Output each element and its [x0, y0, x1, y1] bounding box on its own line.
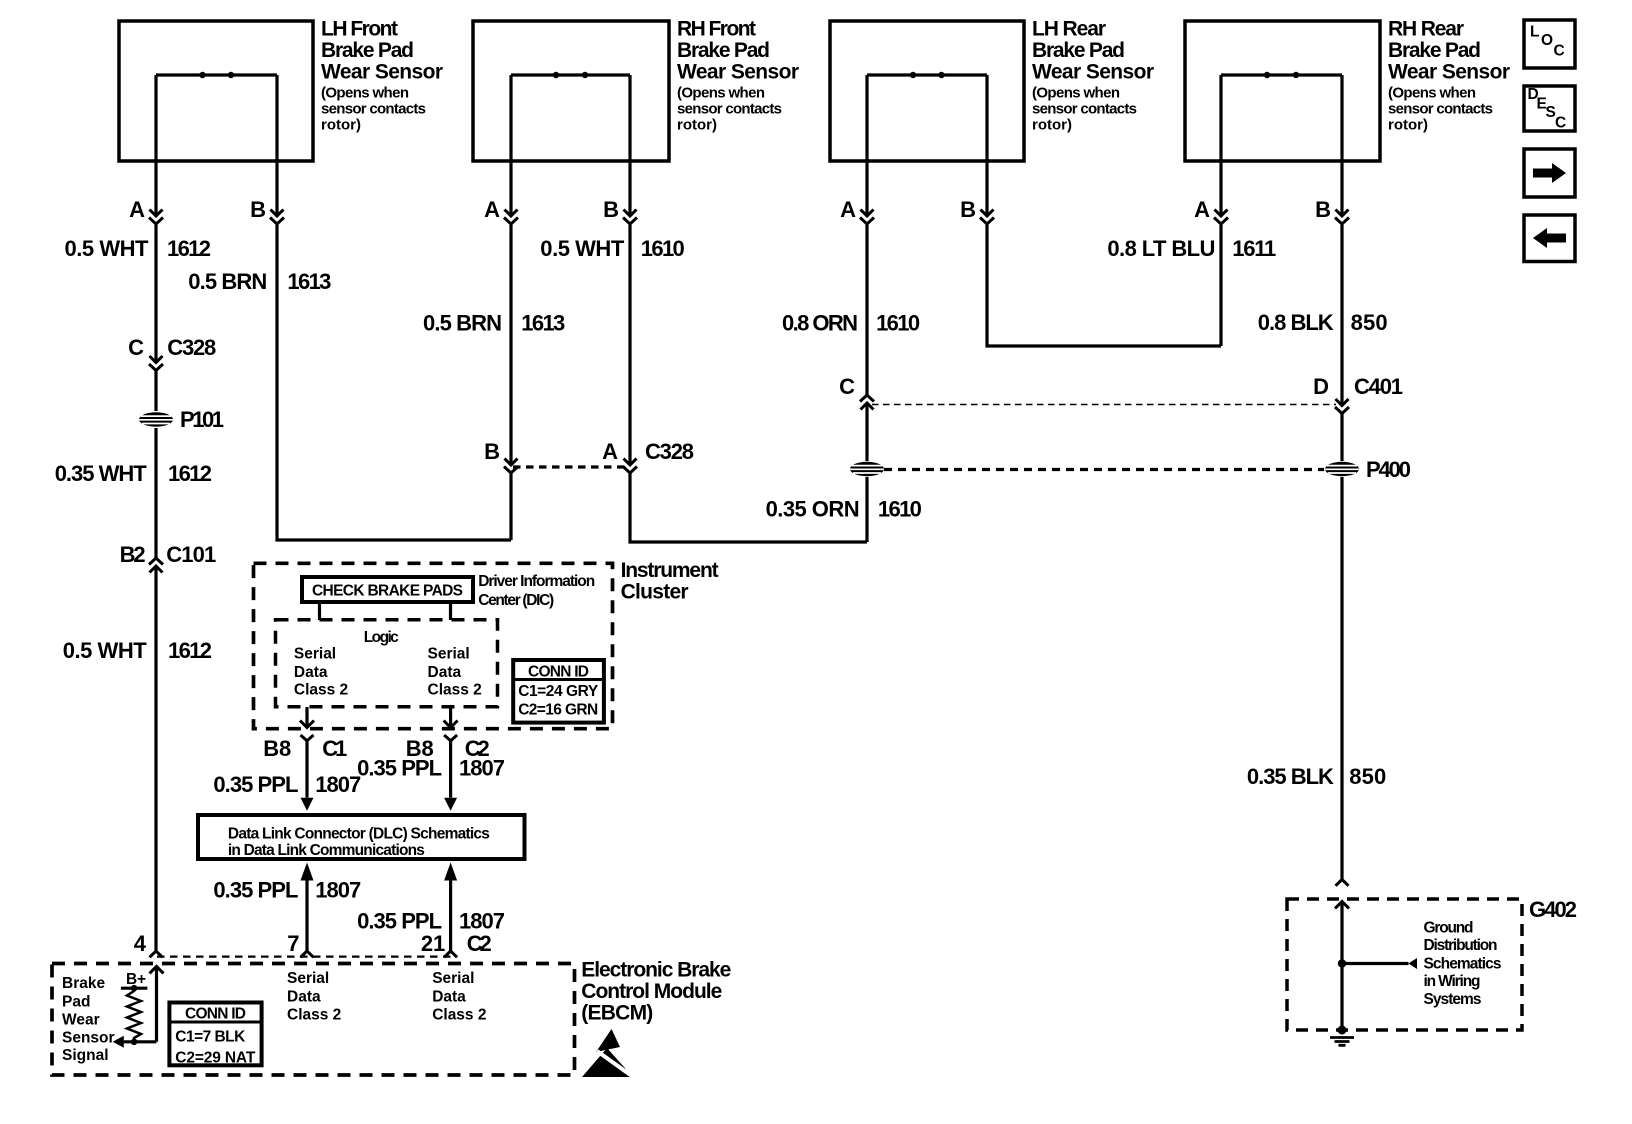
pin fork 7: [301, 951, 314, 957]
svg-text:1807: 1807: [315, 878, 361, 903]
svg-text:rotor): rotor): [1032, 117, 1072, 134]
svg-text:1807: 1807: [459, 756, 505, 781]
svg-text:(Opens when: (Opens when: [677, 85, 765, 102]
dashed grommet line P400: [884, 468, 1324, 471]
svg-text:Brake Pad: Brake Pad: [1388, 39, 1481, 62]
svg-text:Schematics: Schematics: [1424, 955, 1502, 972]
svg-text:Pad: Pad: [62, 994, 90, 1011]
svg-text:Cluster: Cluster: [621, 581, 689, 604]
svg-text:Control Module: Control Module: [581, 980, 722, 1003]
svg-text:1613: 1613: [521, 311, 565, 336]
wire DLC to EBCM pin 21 (PPL 1807): [444, 863, 457, 881]
svg-text:Signal: Signal: [62, 1047, 109, 1064]
svg-text:1807: 1807: [459, 909, 505, 934]
wire stem CHECK box to Logic left: [318, 602, 321, 620]
Logic dashed box: [276, 620, 498, 707]
button LOC: [1524, 20, 1575, 68]
svg-text:Instrument: Instrument: [621, 559, 719, 582]
ground G402 symbol: [1330, 1026, 1354, 1046]
pin fork 4: [150, 951, 163, 957]
svg-text:Ground: Ground: [1424, 919, 1474, 936]
svg-text:A: A: [484, 197, 500, 222]
svg-text:sensor contacts: sensor contacts: [1388, 101, 1493, 118]
svg-text:Serial: Serial: [287, 970, 329, 987]
svg-text:0.8 ORN: 0.8 ORN: [782, 311, 858, 336]
wire RH front B (WHT 1610), x=630: [603, 75, 630, 222]
CONN ID box (cluster): [513, 660, 604, 723]
svg-text:C2=16 GRN: C2=16 GRN: [518, 701, 598, 718]
svg-text:0.5 WHT: 0.5 WHT: [65, 236, 150, 261]
svg-text:4: 4: [134, 931, 147, 956]
svg-text:C401: C401: [1354, 374, 1403, 399]
svg-text:0.8 LT BLU: 0.8 LT BLU: [1107, 236, 1215, 261]
ESD symbol: [582, 1029, 636, 1079]
svg-text:Class 2: Class 2: [428, 681, 482, 698]
svg-text:LH Front: LH Front: [321, 18, 398, 41]
svg-text:0.35 PPL: 0.35 PPL: [213, 878, 298, 903]
CHECK BRAKE PADS indicator box: [302, 577, 473, 602]
svg-text:Wear: Wear: [62, 1012, 100, 1029]
svg-text:Sensor: Sensor: [62, 1030, 115, 1047]
svg-text:(Opens when: (Opens when: [1388, 85, 1476, 102]
svg-text:(Opens when: (Opens when: [321, 85, 409, 102]
node junction resistor/signal: [131, 1039, 138, 1046]
svg-text:Systems: Systems: [1424, 991, 1482, 1008]
Instrument Cluster dashed box: [254, 559, 719, 729]
svg-text:CHECK BRAKE PADS: CHECK BRAKE PADS: [312, 583, 463, 600]
svg-text:C: C: [1554, 43, 1565, 60]
svg-text:Brake Pad: Brake Pad: [321, 39, 414, 62]
sensor LH Rear Brake Pad Wear Sensor box: [830, 18, 1154, 162]
svg-text:C1=7 BLK: C1=7 BLK: [175, 1029, 246, 1046]
connector arrow B C328: [504, 459, 518, 474]
svg-text:Serial: Serial: [428, 646, 470, 663]
wire stem CHECK box to Logic right: [449, 602, 452, 620]
svg-text:Center (DIC): Center (DIC): [478, 592, 554, 609]
dotted connector line EBCM pins: [157, 955, 453, 957]
svg-text:Data: Data: [294, 664, 328, 681]
svg-text:rotor): rotor): [1388, 117, 1428, 134]
svg-text:B+: B+: [126, 971, 146, 988]
CONN ID box (EBCM): [169, 1003, 261, 1067]
arrow up ground wire internal: [1335, 902, 1349, 909]
svg-text:B2: B2: [120, 542, 146, 567]
svg-text:0.35 PPL: 0.35 PPL: [357, 909, 442, 934]
svg-text:Data: Data: [287, 988, 321, 1005]
svg-text:0.5 WHT: 0.5 WHT: [540, 236, 625, 261]
svg-text:L: L: [1530, 24, 1539, 41]
signal arrow to Sensor text: [113, 1036, 157, 1048]
arrow up pin 4 internal: [150, 966, 164, 973]
svg-text:Data Link Connector (DLC) Sche: Data Link Connector (DLC) Schematics: [228, 826, 490, 843]
EBCM dashed box: [52, 964, 575, 1076]
svg-text:Class 2: Class 2: [432, 1006, 486, 1023]
svg-text:C1: C1: [322, 736, 347, 761]
svg-text:rotor): rotor): [321, 117, 361, 134]
svg-text:in Data Link Communications: in Data Link Communications: [228, 842, 425, 859]
connector arrow C C401: [860, 395, 874, 410]
button next arrow: [1524, 149, 1575, 197]
svg-text:0.5 BRN: 0.5 BRN: [188, 269, 267, 294]
dashed connector line C401 (thin): [872, 404, 1336, 406]
svg-text:B: B: [603, 197, 619, 222]
svg-text:in Wiring: in Wiring: [1424, 973, 1481, 990]
reference arrow to Ground Distribution Schematics: [1342, 958, 1417, 969]
svg-text:B: B: [960, 197, 976, 222]
svg-text:1610: 1610: [641, 236, 685, 261]
wire Logic out right with arrow: [449, 707, 452, 727]
pin fork B8 C1: [301, 735, 314, 741]
label Serial Data Class 2 (pin 7): [287, 970, 341, 1023]
button DESC: [1524, 86, 1575, 132]
resistor (pull-up): [127, 988, 141, 1042]
B+ supply: [121, 971, 147, 992]
sensor RH Rear Brake Pad Wear Sensor box: [1185, 18, 1510, 162]
svg-text:0.35 ORN: 0.35 ORN: [766, 497, 860, 522]
svg-text:21: 21: [421, 931, 445, 956]
svg-text:sensor contacts: sensor contacts: [1032, 101, 1137, 118]
pin fork B8 C2: [444, 735, 457, 741]
svg-text:Wear Sensor: Wear Sensor: [677, 61, 799, 84]
button prev arrow: [1524, 215, 1575, 262]
svg-text:A: A: [840, 197, 856, 222]
svg-text:P101: P101: [180, 407, 224, 432]
sensor LH Front Brake Pad Wear Sensor box: [119, 18, 443, 162]
svg-text:Brake: Brake: [62, 975, 105, 992]
wire RH rear B (BLK 850), x=1342: [1247, 75, 1403, 880]
svg-text:A: A: [129, 197, 145, 222]
svg-text:Serial: Serial: [294, 646, 336, 663]
wire pin 4 into EBCM: [155, 966, 158, 1041]
svg-text:RH Front: RH Front: [677, 18, 756, 41]
svg-text:RH Rear: RH Rear: [1388, 18, 1464, 41]
svg-text:Brake Pad: Brake Pad: [677, 39, 770, 62]
svg-text:C: C: [1555, 115, 1566, 132]
svg-text:C328: C328: [167, 335, 216, 360]
svg-text:850: 850: [1351, 310, 1388, 335]
wire serial data C1 (PPL 1807): [213, 736, 361, 798]
wire RH front A (BRN 1613), x=511: [423, 75, 565, 540]
svg-text:Class 2: Class 2: [287, 1006, 341, 1023]
wire RH rear A (LT BLU 1611), x=1221: [1107, 75, 1276, 346]
svg-text:B: B: [1315, 197, 1331, 222]
svg-text:C101: C101: [166, 542, 216, 567]
connector arrow B LH front: [270, 210, 284, 225]
svg-text:1612: 1612: [167, 236, 211, 261]
svg-text:A: A: [1194, 197, 1210, 222]
connector arrow A RH rear: [1214, 210, 1228, 225]
svg-text:C328: C328: [645, 439, 694, 464]
node junction ground ref: [1338, 959, 1346, 967]
svg-text:1610: 1610: [876, 311, 920, 336]
label Driver Information Center (DIC): [478, 573, 595, 609]
svg-text:0.35 BLK: 0.35 BLK: [1247, 764, 1334, 789]
label Electronic Brake Control Module (EBCM): [581, 959, 731, 1025]
svg-text:Data: Data: [428, 664, 462, 681]
svg-text:sensor contacts: sensor contacts: [321, 101, 426, 118]
svg-text:C1=24 GRY: C1=24 GRY: [518, 683, 599, 700]
connector arrow D C401: [1335, 399, 1349, 414]
grommet P400 right: [1325, 457, 1411, 482]
svg-text:Wear Sensor: Wear Sensor: [1388, 61, 1510, 84]
svg-text:1610: 1610: [878, 497, 922, 522]
connector arrow A C328: [623, 459, 637, 474]
svg-text:G402: G402: [1529, 897, 1577, 922]
svg-text:0.5 BRN: 0.5 BRN: [423, 311, 502, 336]
svg-text:0.35 WHT: 0.35 WHT: [55, 461, 148, 486]
connector arrow B RH front: [623, 210, 637, 225]
svg-text:0.8 BLK: 0.8 BLK: [1258, 310, 1334, 335]
svg-text:B: B: [250, 197, 266, 222]
wire LH front B (BRN 1613), x=277: [188, 75, 511, 540]
svg-text:rotor): rotor): [677, 117, 717, 134]
G402 dashed box: [1287, 897, 1577, 1030]
connector arrow A LH rear: [860, 210, 874, 225]
wire DLC to EBCM pin 7 (PPL 1807): [301, 863, 314, 881]
svg-text:Driver Information: Driver Information: [478, 573, 595, 590]
svg-text:(Opens when: (Opens when: [1032, 85, 1120, 102]
dashed connector line C328: [513, 465, 627, 468]
wire LH front A (WHT 1612), x=156: [55, 75, 217, 951]
label Ground Distribution Schematics in Wiring Systems: [1424, 919, 1502, 1008]
svg-text:Wear Sensor: Wear Sensor: [321, 61, 443, 84]
svg-text:Class 2: Class 2: [294, 681, 348, 698]
wire LH rear A (ORN 1610), x=867: [782, 75, 920, 542]
svg-text:0.5 WHT: 0.5 WHT: [63, 638, 148, 663]
svg-text:7: 7: [287, 931, 299, 956]
connector arrow A LH front: [149, 210, 163, 225]
svg-text:(EBCM): (EBCM): [581, 1002, 653, 1025]
label Brake Pad Wear Sensor Signal: [62, 975, 115, 1064]
grommet P400 left: [850, 462, 884, 476]
svg-text:C2: C2: [467, 931, 492, 956]
wire serial data C2 (PPL 1807): [357, 736, 505, 798]
svg-text:CONN ID: CONN ID: [528, 664, 589, 681]
svg-text:C: C: [839, 374, 855, 399]
connector arrow C C328: [149, 356, 163, 371]
svg-text:1611: 1611: [1232, 236, 1276, 261]
svg-text:C2=29 NAT: C2=29 NAT: [175, 1050, 256, 1067]
svg-text:Brake Pad: Brake Pad: [1032, 39, 1125, 62]
grommet P101: [139, 407, 224, 432]
svg-text:P400: P400: [1366, 457, 1411, 482]
svg-text:Distribution: Distribution: [1424, 937, 1498, 954]
svg-text:Electronic Brake: Electronic Brake: [581, 959, 731, 982]
svg-text:LH Rear: LH Rear: [1032, 18, 1106, 41]
svg-text:A: A: [602, 439, 618, 464]
connector arrow B2 C101: [149, 558, 163, 573]
svg-text:CONN ID: CONN ID: [185, 1006, 246, 1023]
svg-text:B: B: [484, 439, 500, 464]
wire ground internal: [1340, 902, 1343, 1031]
svg-text:1612: 1612: [168, 461, 212, 486]
svg-text:D: D: [1313, 374, 1329, 399]
wire Logic out left with arrow: [305, 707, 308, 727]
svg-text:1613: 1613: [287, 269, 331, 294]
connector arrow A RH front: [504, 210, 518, 225]
svg-text:sensor contacts: sensor contacts: [677, 101, 782, 118]
svg-text:Logic: Logic: [364, 629, 399, 646]
wire LH rear B (LT BLU 1611), x=987: [960, 75, 1221, 346]
svg-text:Serial: Serial: [432, 970, 474, 987]
svg-text:B8: B8: [263, 736, 291, 761]
pin fork G402: [1336, 880, 1349, 886]
svg-text:0.35 PPL: 0.35 PPL: [357, 756, 442, 781]
label Serial Data Class 2 (pin 21): [432, 970, 486, 1023]
svg-text:O: O: [1541, 32, 1553, 49]
DLC reference box: [198, 815, 525, 859]
svg-text:Data: Data: [432, 988, 466, 1005]
svg-text:0.35 PPL: 0.35 PPL: [213, 772, 298, 797]
svg-text:C: C: [128, 335, 144, 360]
svg-text:1612: 1612: [168, 638, 212, 663]
svg-text:1807: 1807: [315, 772, 361, 797]
svg-text:Wear Sensor: Wear Sensor: [1032, 61, 1154, 84]
pin fork 21: [444, 951, 457, 957]
connector arrow B LH rear: [980, 210, 994, 225]
connector arrow B RH rear: [1335, 210, 1349, 225]
svg-text:850: 850: [1349, 764, 1386, 789]
sensor RH Front Brake Pad Wear Sensor box: [473, 18, 799, 162]
